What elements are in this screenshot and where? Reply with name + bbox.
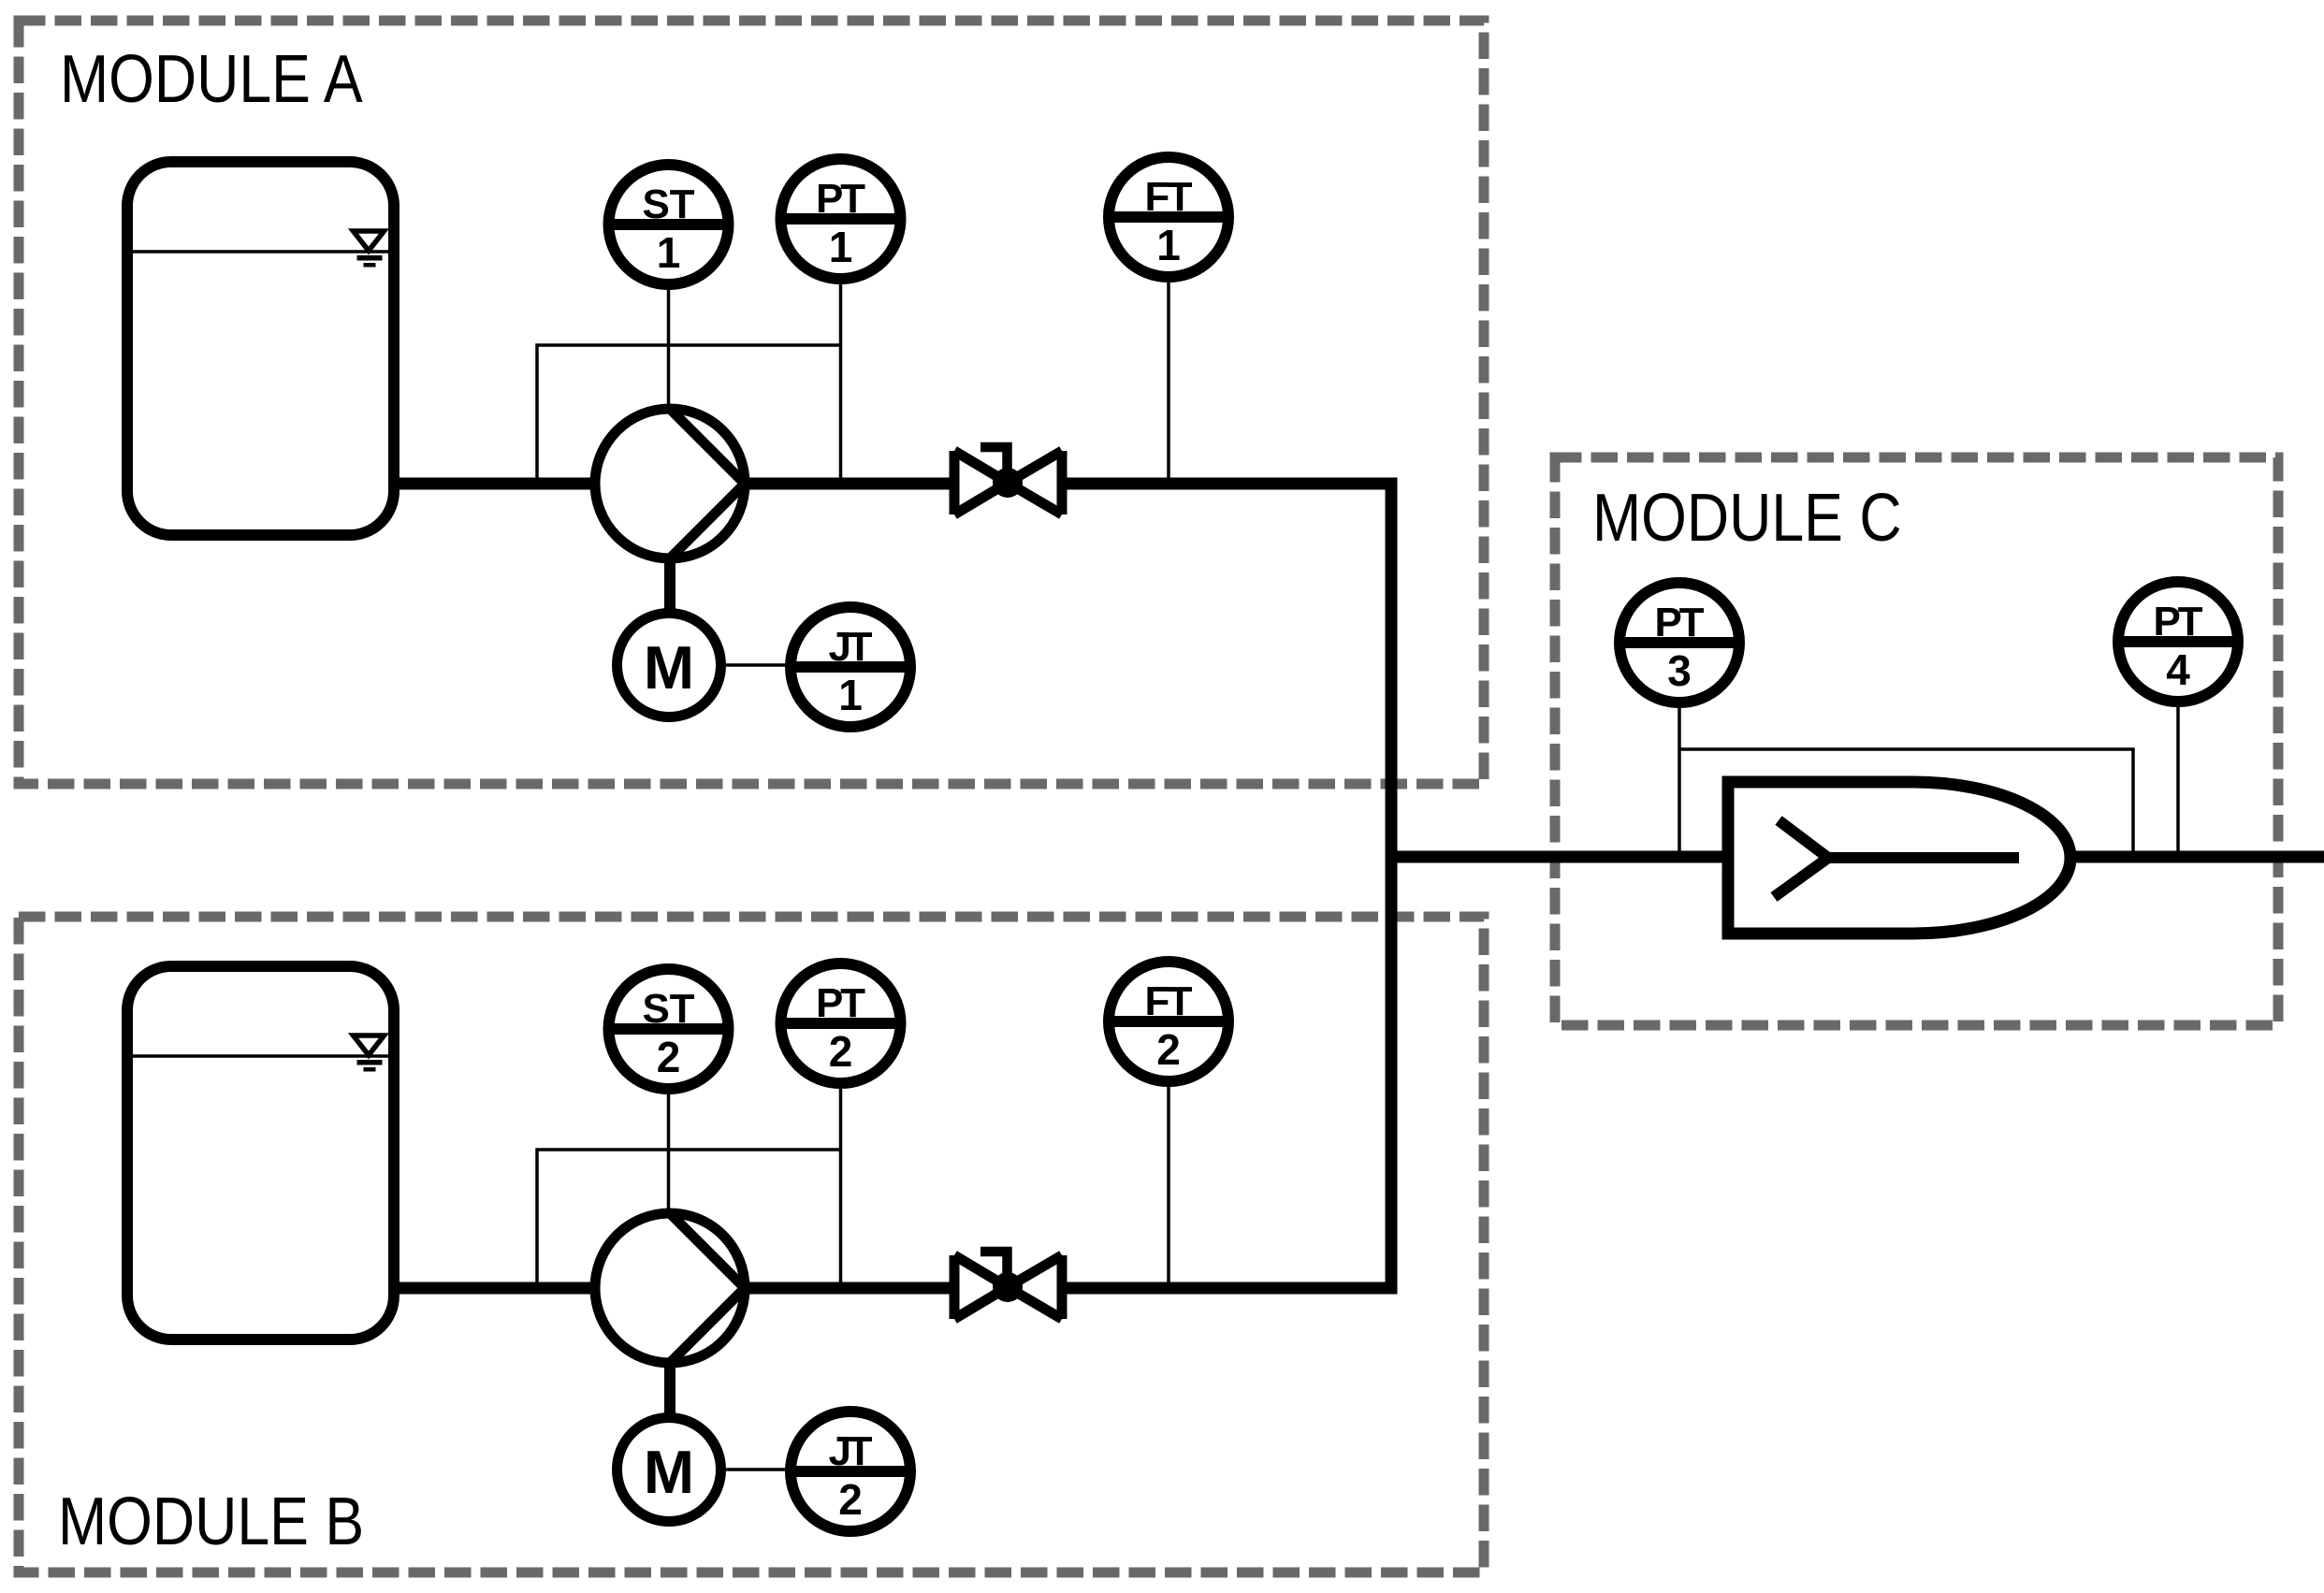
wire: ST1 signal line — [667, 289, 671, 409]
svg-text:JT: JT — [829, 1428, 873, 1474]
instrument FT2 — [1109, 962, 1228, 1081]
wire: PT4 signal line — [2176, 707, 2180, 857]
svg-text:MODULE A: MODULE A — [60, 42, 363, 117]
pipe: valve A to junction riser to valve B — [1067, 484, 1391, 1288]
pipe: pump B discharge — [725, 1282, 950, 1295]
instrument ST1 — [609, 165, 729, 284]
svg-text:1: 1 — [657, 228, 681, 277]
tank T2 level line — [133, 1054, 388, 1058]
wire: instrument header A — [537, 345, 841, 480]
pump P2 impeller — [670, 1213, 745, 1363]
svg-text:PT: PT — [1655, 600, 1705, 645]
instrument JT2 — [791, 1412, 910, 1531]
wire: PT3 signal line — [1678, 708, 1681, 857]
svg-text:MODULE B: MODULE B — [58, 1484, 364, 1559]
svg-text:2: 2 — [838, 1475, 863, 1524]
module B boundary — [19, 917, 1484, 1572]
wire: PT2 signal line — [839, 1088, 843, 1282]
instrument PT3 — [1620, 583, 1739, 702]
tank T2 level marker — [354, 1035, 385, 1072]
instrument PT1 — [781, 159, 901, 279]
valve V2 — [954, 1252, 1062, 1319]
wire: FT1 signal line — [1167, 282, 1170, 480]
pump P2 body — [595, 1213, 745, 1363]
svg-text:ST: ST — [643, 986, 695, 1032]
pump P1 shaft — [664, 558, 675, 617]
svg-text:1: 1 — [1156, 221, 1181, 269]
tank T2 — [127, 966, 394, 1340]
instrument ST2 — [609, 969, 729, 1089]
motor M1 — [617, 614, 721, 717]
svg-text:1: 1 — [838, 671, 863, 719]
module A boundary — [19, 21, 1484, 784]
tank T1 level line — [133, 250, 388, 253]
svg-text:2: 2 — [657, 1033, 681, 1081]
svg-text:PT: PT — [816, 980, 865, 1026]
pump P1 impeller — [670, 409, 745, 558]
instrument JT1 — [791, 607, 910, 727]
valve V1 — [954, 447, 1062, 514]
wire: ST2 signal line — [667, 1093, 671, 1213]
instrument FT1 — [1109, 157, 1228, 277]
svg-text:PT: PT — [2154, 599, 2203, 644]
wire: M2-JT2 signal line — [724, 1468, 788, 1471]
svg-text:1: 1 — [829, 223, 853, 271]
wire: instrument header C — [1679, 749, 2133, 857]
wire: FT2 signal line — [1167, 1086, 1170, 1284]
wire: PT1 signal line — [839, 283, 843, 478]
pump P1 body — [595, 409, 745, 558]
svg-text:M: M — [644, 1438, 694, 1506]
motor M2 — [617, 1418, 721, 1522]
pipe: tank B outlet — [394, 1282, 617, 1295]
tank T1 level marker — [354, 231, 385, 268]
svg-text:JT: JT — [829, 624, 873, 670]
wire: M1-JT1 signal line — [724, 663, 788, 667]
pipe: ejector outlet to edge — [2070, 851, 2324, 863]
svg-text:4: 4 — [2166, 645, 2190, 694]
svg-text:FT: FT — [1145, 174, 1193, 220]
svg-text:3: 3 — [1667, 646, 1692, 695]
svg-text:2: 2 — [829, 1027, 853, 1076]
pipe: tank A outlet — [394, 478, 617, 490]
ejector E1 nozzle — [1774, 820, 2019, 897]
instrument PT4 — [2118, 582, 2238, 702]
ejector E1 body — [1728, 782, 2070, 934]
tank T1 — [127, 162, 394, 535]
module C boundary — [1555, 457, 2278, 1025]
pump P2 shaft — [664, 1363, 675, 1422]
pipe: junction to ejector — [1391, 851, 1735, 863]
svg-text:FT: FT — [1145, 978, 1193, 1024]
pipe: pump A discharge — [725, 478, 950, 490]
svg-text:ST: ST — [643, 181, 695, 227]
instrument PT2 — [781, 963, 901, 1083]
svg-text:M: M — [644, 633, 694, 702]
svg-text:2: 2 — [1156, 1025, 1181, 1074]
svg-text:MODULE C: MODULE C — [1592, 481, 1902, 556]
svg-text:PT: PT — [816, 176, 865, 222]
wire: instrument header B — [537, 1150, 841, 1284]
